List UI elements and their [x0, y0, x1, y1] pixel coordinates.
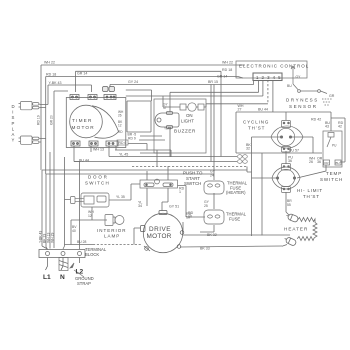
- svg-text:HEATER: HEATER: [284, 227, 308, 232]
- svg-text:CYCLING: CYCLING: [243, 120, 269, 125]
- svg-text:DRYNESS: DRYNESS: [286, 98, 319, 103]
- svg-text:Y-BK 43: Y-BK 43: [49, 81, 62, 85]
- wire to BK32 junction: [261, 153, 263, 236]
- drive motor M2: [143, 213, 182, 252]
- wire labels top: [44, 60, 344, 128]
- svg-text:PU: PU: [332, 144, 337, 148]
- terminal block TB1: [39, 250, 85, 258]
- wire display top: [40, 105, 49, 108]
- svg-text:YL 45: YL 45: [119, 153, 128, 157]
- wire door switch out YL 35: [109, 199, 131, 201]
- svg-text:BU: BU: [336, 161, 340, 165]
- temp switch S2: [323, 131, 342, 167]
- timer terminals right labels: [118, 110, 124, 134]
- display J1: [12, 104, 15, 143]
- wire door switch drop: [65, 200, 93, 221]
- wire BU 44 lower: [74, 150, 237, 162]
- svg-text:34: 34: [138, 204, 142, 208]
- svg-text:LIGHT: LIGHT: [181, 119, 194, 124]
- wire left vertical to N: [63, 157, 65, 249]
- svg-text:24: 24: [210, 173, 214, 177]
- svg-text:RD: RD: [118, 130, 123, 134]
- console box (buzzer / on light): [154, 99, 206, 153]
- svg-text:BR 15: BR 15: [208, 80, 218, 84]
- svg-text:BLOCK: BLOCK: [85, 252, 99, 257]
- svg-text:WH 22: WH 22: [222, 60, 233, 64]
- svg-text:TEMP: TEMP: [326, 171, 342, 176]
- svg-text:55: 55: [287, 203, 291, 207]
- wire timer top stubs: [109, 85, 111, 93]
- svg-text:1: 1: [179, 190, 181, 194]
- svg-text:36: 36: [317, 160, 321, 164]
- svg-text:START: START: [186, 176, 200, 181]
- wire RD 18: [46, 77, 243, 250]
- svg-text:26: 26: [118, 114, 122, 118]
- svg-text:SENSOR: SENSOR: [289, 104, 318, 109]
- cycling thermostat TH1: [271, 121, 303, 153]
- wire mid band y150: [115, 150, 157, 166]
- wire GR 14: [76, 71, 222, 156]
- connector on GY24 line at timer: [103, 87, 115, 92]
- wire temp sw to hi-limit: [297, 165, 326, 178]
- svg-text:RD 19: RD 19: [37, 115, 41, 125]
- timer assembly box: [66, 98, 126, 148]
- svg-text:BU 44: BU 44: [79, 159, 89, 163]
- wire cycling top RD 42: [285, 112, 287, 120]
- wire BK 32: [183, 137, 290, 236]
- svg-text:(HEATER): (HEATER): [226, 190, 246, 195]
- svg-text:GY 51: GY 51: [169, 205, 179, 209]
- svg-text:36: 36: [288, 159, 292, 163]
- svg-text:WH 13: WH 13: [93, 148, 104, 152]
- wire WH 22: [41, 65, 245, 249]
- svg-text:12345: 12345: [256, 75, 284, 80]
- display connector bottom: [19, 136, 40, 144]
- svg-text:SWITCH: SWITCH: [85, 180, 110, 185]
- svg-text:N: N: [60, 274, 65, 281]
- svg-text:ELECTRONIC CONTROL: ELECTRONIC CONTROL: [239, 64, 309, 69]
- wire WH 27 / PU 57: [236, 112, 322, 153]
- wire buzzer top GY 47: [169, 92, 171, 112]
- svg-text:12: 12: [88, 214, 92, 218]
- svg-text:I: I: [12, 110, 13, 115]
- svg-text:TH’ST: TH’ST: [303, 194, 320, 199]
- wire display bottom: [40, 139, 46, 143]
- svg-text:S: S: [12, 115, 15, 120]
- svg-text:27: 27: [238, 108, 242, 112]
- svg-text:WH 22: WH 22: [44, 61, 55, 65]
- svg-text:BU 44: BU 44: [258, 108, 268, 112]
- svg-text:GR: GR: [329, 94, 335, 98]
- svg-text:Y: Y: [12, 138, 15, 143]
- wire labels middle: [79, 143, 323, 251]
- wire EC drop to buzzer: [126, 80, 268, 107]
- L1 arrow: [46, 266, 64, 270]
- svg-text:BK 33: BK 33: [200, 247, 210, 251]
- timer motor M1: [70, 105, 119, 138]
- connector pair at line ends: [238, 155, 248, 164]
- svg-text:L2: L2: [76, 269, 84, 276]
- wire lamp neutral BU 28: [65, 220, 142, 245]
- wire hi-limit left: [252, 177, 278, 179]
- svg-text:TH’ST: TH’ST: [248, 126, 265, 131]
- svg-text:45: 45: [168, 127, 172, 131]
- timer terminals bottom: [71, 141, 118, 146]
- svg-text:43: 43: [325, 125, 329, 129]
- svg-text:ON: ON: [186, 113, 193, 118]
- hi-limit thermostat TH2: [272, 164, 300, 193]
- svg-text:YL 35: YL 35: [116, 195, 125, 199]
- svg-text:42: 42: [338, 125, 342, 129]
- electronic control U1: [236, 61, 307, 78]
- wire BU 44 bus: [236, 80, 331, 112]
- wire thermal fuse chain: [200, 193, 214, 232]
- wire mid band y153: [140, 152, 170, 154]
- wire EC dashed drops: [132, 80, 268, 167]
- svg-text:P: P: [12, 121, 15, 126]
- svg-text:L1: L1: [43, 274, 51, 281]
- wire timer bottom stubs: [74, 146, 116, 152]
- wire buzzer bottom: [157, 127, 171, 157]
- svg-text:BK 32: BK 32: [207, 233, 217, 237]
- dryness sensor S1: [293, 84, 327, 94]
- wire left vertical GR 20: [54, 91, 68, 248]
- svg-text:BUZZER: BUZZER: [174, 129, 196, 134]
- svg-text:LAMP: LAMP: [104, 233, 120, 238]
- svg-text:GR 20: GR 20: [50, 115, 54, 125]
- svg-text:HI- LIMIT: HI- LIMIT: [297, 188, 323, 193]
- wire temp switch top: [331, 112, 345, 162]
- display connector top: [19, 102, 40, 110]
- svg-text:32: 32: [246, 147, 250, 151]
- svg-text:RD 42: RD 42: [311, 118, 321, 122]
- wire L1 L2 leads: [48, 258, 80, 267]
- svg-text:TIMER: TIMER: [72, 118, 93, 123]
- svg-text:RD 9: RD 9: [128, 137, 136, 141]
- wire L2 up: [74, 162, 80, 250]
- wire timer right cluster: [127, 101, 165, 150]
- wire hi-limit to heater: [286, 192, 290, 216]
- buzzer BZ1: [155, 112, 179, 129]
- rotated wire labels left: [37, 115, 55, 243]
- on light DS1: [180, 103, 204, 111]
- svg-text:SWITCH: SWITCH: [320, 177, 343, 182]
- svg-text:RD 18: RD 18: [46, 72, 56, 76]
- svg-text:47: 47: [163, 106, 167, 110]
- wire motor top feed: [147, 186, 205, 218]
- terminal strip 1-5: [253, 73, 282, 81]
- svg-text:MOTOR: MOTOR: [147, 233, 172, 240]
- svg-text:26: 26: [309, 160, 313, 164]
- wire Y-BK 43: [48, 85, 92, 105]
- wire y174: [46, 173, 214, 175]
- svg-text:40: 40: [72, 229, 76, 233]
- wire cycling right: [291, 137, 313, 153]
- svg-text:DOOR: DOOR: [88, 175, 109, 180]
- svg-text:RD 6: RD 6: [119, 141, 127, 145]
- wire y170: [42, 167, 252, 173]
- wire motor right to fuse: [182, 222, 184, 232]
- svg-text:INTERIOR: INTERIOR: [97, 228, 127, 233]
- svg-text:RD 18: RD 18: [222, 68, 232, 72]
- svg-text:12: 12: [118, 124, 122, 128]
- svg-text:BU: BU: [287, 84, 292, 88]
- wire YL 45: [109, 152, 237, 157]
- wire left vertical BK 23: [49, 152, 51, 249]
- wire BR 15: [110, 85, 254, 162]
- wire push start feeds: [131, 166, 168, 200]
- thermal fuse F2: [204, 210, 224, 224]
- wire BK 33: [180, 246, 282, 247]
- svg-text:GY 24: GY 24: [128, 80, 138, 84]
- heater R1: [282, 213, 317, 247]
- wire cycling left: [252, 136, 282, 138]
- svg-text:BU 28: BU 28: [77, 240, 87, 244]
- svg-text:DRIVE: DRIVE: [149, 226, 171, 233]
- svg-text:10: 10: [188, 215, 192, 219]
- svg-text:PUSH TO: PUSH TO: [183, 171, 203, 176]
- timer terminals top: [70, 95, 116, 100]
- wire PU 36: [285, 151, 287, 164]
- svg-text:GR 14: GR 14: [217, 75, 227, 79]
- wire GY 24: [126, 80, 254, 180]
- svg-text:MOTOR: MOTOR: [72, 125, 95, 130]
- svg-text:STRAP: STRAP: [77, 281, 91, 286]
- motor terminals: [141, 211, 184, 252]
- svg-text:PU 57: PU 57: [289, 149, 299, 153]
- door switch S3: [71, 193, 110, 207]
- thermal fuse (heater) F1: [204, 181, 224, 194]
- svg-text:GY: GY: [296, 75, 302, 79]
- centrifugal / start switch box: [140, 179, 178, 188]
- svg-text:GR 14: GR 14: [77, 72, 87, 76]
- interior lamp DS2: [105, 215, 124, 226]
- svg-text:SWITCH: SWITCH: [184, 181, 201, 186]
- svg-text:25: 25: [204, 204, 208, 208]
- svg-text:D: D: [12, 104, 15, 109]
- svg-text:A: A: [12, 132, 15, 137]
- svg-text:FUSE: FUSE: [229, 216, 240, 221]
- ground strap: [59, 258, 84, 278]
- svg-text:WH 29: WH 29: [51, 233, 55, 243]
